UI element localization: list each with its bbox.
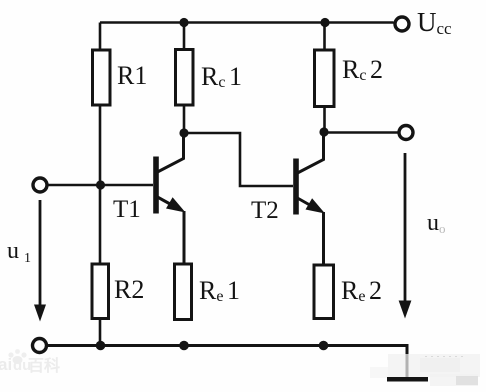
label u1 <box>7 238 31 266</box>
resistor R1 <box>93 50 111 105</box>
label uo <box>427 210 446 236</box>
svg-text:T2: T2 <box>251 197 279 224</box>
transistor T1 <box>156 133 186 264</box>
svg-text:Re2: Re2 <box>341 276 382 305</box>
watermark: pixel blob bottom-right <box>370 354 480 386</box>
svg-text:u1: u1 <box>7 238 31 266</box>
svg-text:ai: ai <box>0 355 12 374</box>
transistor T2 <box>296 132 325 265</box>
label T2 <box>251 197 279 224</box>
node: T1 base / R1 / R2 junction <box>96 180 105 189</box>
node: T2 collector junction <box>319 127 328 136</box>
svg-text:Rc1: Rc1 <box>201 62 242 91</box>
svg-text:T1: T1 <box>113 196 141 223</box>
node: top rail / Rc1 junction <box>179 18 188 27</box>
terminal: input (top) <box>33 178 47 192</box>
wire: T2 collector to output terminal <box>324 131 398 134</box>
resistor R2 <box>92 264 109 319</box>
svg-text:Ucc: Ucc <box>417 7 452 38</box>
wire: input terminal to T1 base node <box>48 184 100 187</box>
node: T1 collector junction <box>179 128 188 137</box>
watermark: baidu baike bottom-left <box>0 349 60 375</box>
label Re2 <box>341 276 382 305</box>
arrow: input voltage u1 <box>34 200 46 322</box>
label Re1 <box>199 276 240 305</box>
wire: Rc1 column (rail to collector node) <box>183 23 186 134</box>
label Rc2 <box>342 55 383 84</box>
label Rc1 <box>201 62 242 91</box>
label R1 <box>117 61 147 90</box>
resistor Re2 <box>314 265 334 319</box>
wire: bottom common rail <box>47 346 407 378</box>
arrow: output voltage uo <box>399 153 412 319</box>
wire: coupling T1 collector to T2 base <box>184 133 293 186</box>
svg-text:uo: uo <box>427 210 446 236</box>
wire: Rc2 column (rail to collector node) <box>323 23 326 133</box>
node: top rail / Rc2 junction <box>320 18 329 27</box>
resistor Rc2 <box>315 50 335 107</box>
terminal: output <box>399 126 413 140</box>
node: R2 bottom rail junction <box>96 341 106 351</box>
wire: base node to T1 base bar <box>100 184 153 187</box>
resistor Re1 <box>175 264 192 320</box>
node: Re2 bottom rail junction <box>319 341 329 351</box>
terminal: input (bottom) <box>33 339 47 353</box>
label T1 <box>113 196 141 223</box>
label R2 <box>114 275 144 304</box>
svg-text:R2: R2 <box>114 275 144 304</box>
wire: left branch vertical (R1/R2 column) <box>99 23 102 346</box>
svg-text:百科: 百科 <box>28 356 60 375</box>
ground (redraw on top of watermark) <box>387 377 428 382</box>
svg-text:Rc2: Rc2 <box>342 55 383 84</box>
svg-text:Re1: Re1 <box>199 276 240 305</box>
ground <box>387 377 428 382</box>
wire: top power rail from R1 top to Ucc terminal <box>100 21 394 24</box>
label Ucc <box>417 7 452 38</box>
svg-text:R1: R1 <box>117 61 147 90</box>
node: Re1 bottom rail junction <box>179 341 189 351</box>
resistor Rc1 <box>176 50 194 106</box>
terminal: Ucc <box>395 17 409 31</box>
